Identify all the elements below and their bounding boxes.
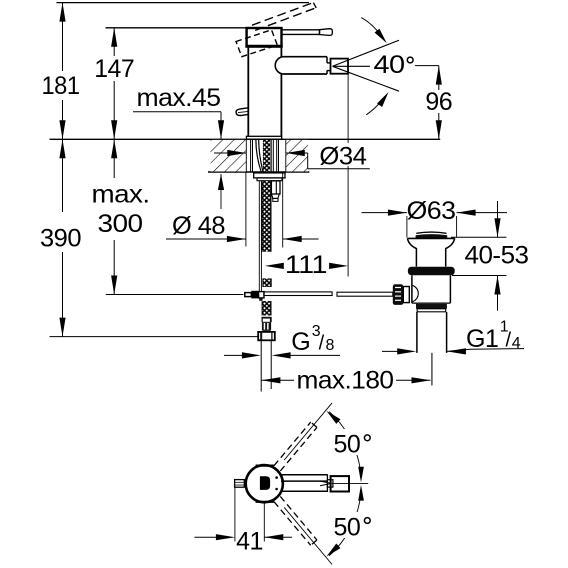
threaded shaft [250,139,252,172]
countertop hatching right [286,140,308,172]
dimension 181 line [62,3,64,71]
dimension Ø63 extension lines [406,216,408,238]
plan lever neck [327,480,333,487]
braided supply hose lower [262,301,271,316]
dimension Ø63 arrows [362,212,407,214]
valve tailpipe [416,312,418,353]
dimension G1-1/4 arrows [382,350,399,352]
dimension max.180 label [294,368,396,393]
rod clamp [259,292,264,298]
svg-text:8: 8 [326,337,335,354]
dimension G3/8 arrows [224,354,244,356]
valve flange [408,267,455,276]
horizontal pop-up rod [264,292,332,296]
handle head [247,28,282,46]
pop-up rod vertical [258,181,260,292]
connector line 40deg to 96 [415,65,439,67]
svg-text:40: 40 [374,51,405,79]
svg-text:max.: max. [92,181,150,209]
faucet body [247,46,249,136]
dimension 147 line [113,28,115,56]
svg-text:96: 96 [425,88,452,116]
dimension 40-53 arrows [497,201,499,237]
valve lower nut [416,304,447,309]
svg-text:181: 181 [42,72,80,100]
svg-text:50: 50 [334,431,361,459]
hose ferrule [262,317,272,323]
svg-text:G: G [291,328,310,356]
valve bell left [407,238,416,266]
svg-text:4: 4 [512,335,521,352]
svg-text:max.45: max.45 [137,84,221,112]
svg-text:max.180: max.180 [297,367,394,395]
plan pop-up rod knob [235,480,245,488]
svg-text:390: 390 [40,225,81,253]
dimension 96 line [438,66,440,90]
dimension 40 deg label [370,52,416,78]
dimension Ø48 extension lines [245,173,247,247]
svg-text:Ø34: Ø34 [319,143,367,171]
spray angle lines [333,40,400,66]
dimension max.45 leader [133,111,221,113]
svg-text:300: 300 [98,210,143,238]
svg-text:50: 50 [334,513,361,541]
mounting nut [254,173,285,178]
dimension 111 line [265,263,284,269]
svg-text:G1: G1 [466,325,498,353]
valve body [411,275,413,303]
spout [283,56,327,58]
plan lever grip [331,476,349,491]
aerator [331,59,349,74]
dimension Ø34 arrows [214,152,246,154]
max.180 extension line [431,353,433,385]
dimension Ø34 label [315,143,370,166]
rod linkage block [251,291,258,299]
dimension max.180 line [261,377,280,383]
base flange [246,136,281,139]
spray angle arc upper [361,18,382,38]
plan view body circle [246,465,283,502]
knurled coupling knob [393,284,404,305]
svg-text:Ø 48: Ø 48 [172,212,225,240]
handle rotated position (dashed) [236,30,277,57]
aerator extension line [347,74,349,277]
dimension 40-53 reference lines [451,236,506,238]
pop-up rod knob [236,108,248,116]
svg-text:40-53: 40-53 [465,242,529,270]
rod linkage clevis [245,293,252,297]
svg-text:147: 147 [94,55,134,83]
braided supply hose middle [263,278,271,287]
angle arc lower [329,497,360,556]
dimension 390 line [62,139,64,212]
dimension 41 line [195,536,218,538]
angle arc upper [329,412,360,471]
plan lever bar [281,474,327,476]
valve bell right [446,238,455,266]
plan lever centerline [332,483,368,485]
valve centerline [431,353,433,385]
spray angle arc lower [366,96,385,115]
handle lever [282,30,320,35]
valve top plate [407,237,454,239]
hose nut [258,332,275,340]
plan -50deg centerline [284,507,332,564]
hose side connector [271,181,280,194]
plan screw dots [275,476,278,479]
plan lever cross-section [260,476,270,490]
hose curve in shaft [256,140,261,172]
countertop top surface [50,138,441,140]
reference line top of handle [106,27,248,29]
coupling stub [403,287,409,303]
svg-text:41: 41 [236,528,263,556]
plan handle -50deg position (dashed) [280,496,317,540]
dimension G3/8 label [286,325,341,352]
braided supply hose upper [262,181,271,252]
plan rod knob extension line [234,488,236,542]
braided hose in shaft [263,140,270,172]
angle label 50deg lower [329,512,376,538]
G3/8 tube [260,340,262,391]
reference line for max.300 [106,294,244,296]
dimension Ø48 leader [220,174,222,209]
handle raised position (dashed) [252,3,313,26]
mounting hole edges [245,139,247,172]
top reference line (handle up position) [57,2,310,4]
countertop hatching left [211,140,247,172]
countertop bottom surface [208,171,309,173]
hose hex section [262,322,271,330]
valve push knob [416,232,446,233]
dimension Ø48 arrows [166,238,246,240]
plan +50deg centerline [284,403,332,460]
plan centerline to dimension [263,503,265,542]
bottom reference line for 390 [50,336,258,338]
svg-text:Ø63: Ø63 [407,197,456,225]
plan handle +50deg position (dashed) [280,427,317,471]
angle label 50deg upper [329,429,376,455]
dimension max.300 line [113,139,115,178]
svg-text:111: 111 [285,251,327,279]
